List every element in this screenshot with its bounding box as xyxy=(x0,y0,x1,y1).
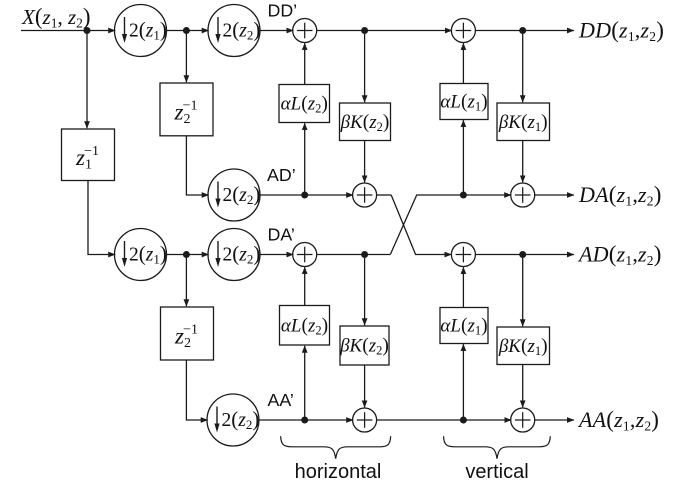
node J11 row4 feeds aL(z1) xyxy=(460,417,467,424)
svg-text:AD’: AD’ xyxy=(267,165,296,185)
gain box bK(z1) bottom xyxy=(497,327,550,365)
wire aL(z2) top to adder S1 xyxy=(304,43,306,84)
wire delay Z2b to downsampler U6 xyxy=(186,360,207,420)
wire J7 down to delay Z2b xyxy=(185,255,187,307)
adder S2 row1 xyxy=(451,19,475,43)
svg-text:βK(z1): βK(z1) xyxy=(498,336,548,358)
wire S4 to output DA xyxy=(535,194,574,196)
wire J2 down to delay Z2a xyxy=(185,31,187,83)
downsampler U6 circle 2(z2) row4 xyxy=(207,394,259,446)
adder S6 row3 xyxy=(451,243,475,267)
wire S3 to crossover xyxy=(377,194,392,196)
node J10 row4 feeds aL(z2) xyxy=(301,417,308,424)
downsampler U5 circle 2(z2) row3 xyxy=(208,229,260,281)
wire U3 to U5 xyxy=(167,254,209,256)
svg-text:βK(z1): βK(z1) xyxy=(498,112,548,134)
svg-text:DA’: DA’ xyxy=(268,225,295,245)
brace vertical section xyxy=(444,436,551,458)
node J4 row1 feeds bK(z1) xyxy=(519,27,526,34)
wire S1 to adder S2 xyxy=(317,30,452,32)
downsampler U4 circle 2(z2) row2 xyxy=(208,169,260,221)
wire S5 to crossover xyxy=(317,254,391,256)
svg-text:αL(z1): αL(z1) xyxy=(440,92,487,114)
wire S6 to output AD xyxy=(475,254,574,256)
label vertical xyxy=(465,461,528,483)
gain box aL(z2) bottom xyxy=(280,306,330,346)
gain box bK(z2) top xyxy=(340,103,391,141)
node J2 row1 branch xyxy=(183,27,190,34)
wire J9 down to bK(z1) bottom xyxy=(522,255,524,327)
svg-text:DD’: DD’ xyxy=(268,1,298,21)
label DA' xyxy=(268,225,295,245)
svg-text:αL(z1): αL(z1) xyxy=(440,316,487,338)
wire bK(z1) bottom to adder S8 xyxy=(522,365,524,408)
node J8 row3 feeds bK(z2) xyxy=(361,251,368,258)
wire U2 to adder S1 xyxy=(260,30,293,32)
wire U6 to adder S7 xyxy=(259,419,353,421)
wire delay Z2a to downsampler U4 xyxy=(186,136,208,195)
wire J6 up to aL(z1) top xyxy=(462,120,464,195)
wire bK(z1) top to adder S4 xyxy=(522,141,524,183)
node J7 row3 branch xyxy=(183,251,190,258)
node J5 row2 feeds aL(z2) xyxy=(301,192,308,199)
crossover wire row3 to row2 xyxy=(390,195,511,255)
wire U4 to adder S3 xyxy=(260,194,353,196)
wire bK(z2) bottom to adder S7 xyxy=(364,365,366,407)
adder S4 row2 xyxy=(511,183,535,207)
output label DA(z1,z2) xyxy=(578,182,662,209)
wire J10 up to aL(z2) bottom xyxy=(304,346,306,420)
wire aL(z2) bottom to adder S5 xyxy=(304,267,306,305)
node J6 row2 feeds aL(z1) xyxy=(460,192,467,199)
wire bK(z2) top to adder S3 xyxy=(364,141,366,183)
wire U5 to adder S5 xyxy=(260,254,293,256)
downsampler U3 circle 2(z1) row3 xyxy=(115,229,167,281)
wire S8 to output AA xyxy=(535,419,574,421)
label horizontal xyxy=(295,461,382,483)
wire input to downsampler U1 xyxy=(21,30,115,32)
brace horizontal section xyxy=(281,436,391,458)
wire S7 to adder S8 xyxy=(377,419,512,421)
adder S7 row4 xyxy=(353,408,377,432)
delay box z2^-1 top xyxy=(160,83,213,136)
output label AA(z1,z2) xyxy=(577,407,659,434)
wire U1 to U2 xyxy=(167,30,209,32)
svg-text:αL(z2): αL(z2) xyxy=(281,315,328,337)
wire aL(z1) top to adder S2 xyxy=(462,43,464,83)
wire delay Z1 to downsampler U3 xyxy=(88,181,115,255)
downsampler U1 circle 2(z1) row1 xyxy=(115,5,167,57)
output label DD(z1,z2) xyxy=(578,18,664,45)
svg-text:2(z2): 2(z2) xyxy=(223,182,261,207)
output label AD(z1,z2) xyxy=(577,242,662,269)
downsampler U2 circle 2(z2) row1 xyxy=(208,5,260,57)
node J1 input branch xyxy=(84,27,91,34)
wire J8 down to bK(z2) bottom xyxy=(364,255,366,326)
gain box aL(z2) top xyxy=(279,85,330,123)
wire J3 down to bK(z2) top xyxy=(364,31,366,103)
gain box bK(z1) top xyxy=(497,103,550,141)
label AD' xyxy=(267,165,296,185)
wire J4 down to bK(z1) top xyxy=(522,31,524,103)
svg-text:2(z2): 2(z2) xyxy=(223,241,261,266)
wire aL(z1) bottom to adder S6 xyxy=(462,267,464,307)
crossover wire row2 to row3 xyxy=(391,195,451,255)
wire J11 up to aL(z1) bottom xyxy=(462,344,464,420)
svg-text:vertical: vertical xyxy=(465,461,528,483)
gain box bK(z2) bottom xyxy=(339,326,389,365)
wire J5 up to aL(z2) top xyxy=(304,123,306,195)
svg-text:2(z2): 2(z2) xyxy=(223,17,261,42)
svg-text:αL(z2): αL(z2) xyxy=(281,94,328,116)
svg-text:horizontal: horizontal xyxy=(295,461,382,483)
adder S3 row2 xyxy=(353,183,377,207)
input label X(z1, z2) xyxy=(21,4,91,31)
node J3 row1 feeds bK(z2) xyxy=(361,27,368,34)
wire S2 to output DD xyxy=(475,30,574,32)
adder S5 row3 xyxy=(293,243,317,267)
svg-text:βK(z2): βK(z2) xyxy=(339,336,389,358)
svg-text:2(z2): 2(z2) xyxy=(222,407,260,432)
delay box z2^-1 bottom xyxy=(161,307,214,360)
svg-text:AA’: AA’ xyxy=(268,390,294,410)
svg-text:2(z1): 2(z1) xyxy=(129,17,167,42)
gain box aL(z1) top xyxy=(440,84,488,120)
label DD' xyxy=(268,1,298,21)
label AA' xyxy=(268,390,294,410)
delay box z1^-1 xyxy=(62,129,115,181)
adder S1 row1 xyxy=(293,19,317,43)
gain box aL(z1) bottom xyxy=(440,308,488,344)
svg-text:2(z1): 2(z1) xyxy=(129,241,167,266)
node J9 row3 feeds bK(z1) xyxy=(519,251,526,258)
adder S8 row4 xyxy=(511,408,535,432)
svg-text:βK(z2): βK(z2) xyxy=(340,112,390,134)
wire J1 down to delay Z1 xyxy=(86,31,88,129)
